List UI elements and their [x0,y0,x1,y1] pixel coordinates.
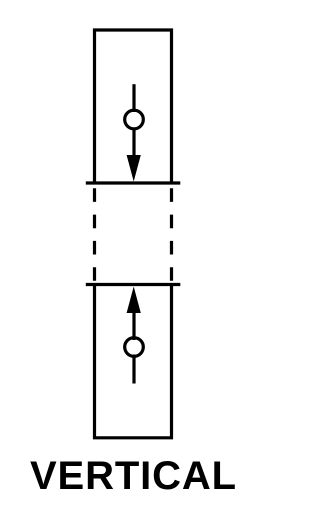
upper arrowhead (down) [127,155,141,182]
lower circle (rod eye) [125,338,144,357]
upper duct section (solid rectangle, open at bottom) [95,30,172,183]
right break dashed line [170,188,173,281]
upper circle (rod eye) [125,110,144,129]
upper break flange line [86,181,181,184]
lower break flange line [86,283,181,286]
lower duct section (solid rectangle, open at top) [95,285,172,438]
left break dashed line [93,188,96,281]
upper rod lower segment (wire) [132,128,135,160]
upper hanger rod (wire) [132,84,135,112]
label VERTICAL [30,463,237,490]
lower arrowhead (up) [127,287,141,314]
lower rod lower segment (wire) [132,355,135,384]
lower rod upper segment (wire) [132,308,135,340]
